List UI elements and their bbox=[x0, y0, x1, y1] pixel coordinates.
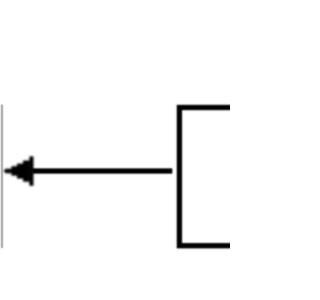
arrowhead (stepped, pointing left) bbox=[4, 156, 34, 185]
wire (horizontal arrow shaft) bbox=[32, 168, 172, 173]
wire (faint vertical line at left edge, cut off) bbox=[1, 105, 3, 249]
block (rectangle, cut off at right edge) bbox=[179, 108, 239, 246]
